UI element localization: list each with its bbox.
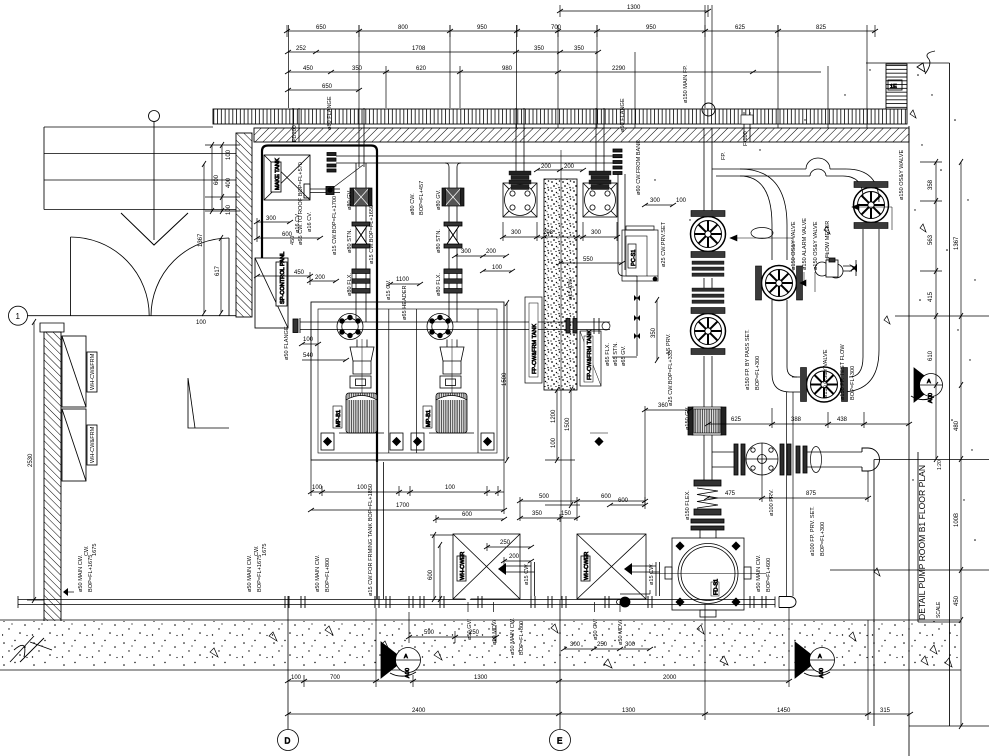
svg-text:ø15 CW.: ø15 CW. <box>568 278 574 300</box>
svg-text:100: 100 <box>551 437 557 448</box>
svg-text:WH-CWER: WH-CWER <box>460 552 466 580</box>
svg-text:FP-CW&FRM TANK: FP-CW&FRM TANK <box>532 324 538 374</box>
svg-text:ø50 GV/: ø50 GV/ <box>467 619 473 640</box>
header end flange left <box>327 153 336 156</box>
svg-text:300: 300 <box>266 216 277 222</box>
left elbow of run <box>772 352 797 392</box>
svg-text:300: 300 <box>461 249 472 255</box>
dim row1 1300 <box>560 10 708 12</box>
capped end <box>862 448 880 471</box>
PRV body <box>746 443 778 475</box>
svg-text:600: 600 <box>601 494 612 500</box>
junction dot with leader <box>328 188 332 192</box>
svg-text:563: 563 <box>928 234 934 245</box>
branch FP line <box>712 168 806 170</box>
svg-text:100: 100 <box>492 265 503 271</box>
svg-text:315: 315 <box>880 708 891 714</box>
valve5 <box>801 367 848 402</box>
PC-S1 panel <box>622 230 658 281</box>
svg-text:DETAIL PUMP ROOM B1 FLOOR: DETAIL PUMP ROOM B1 FLOOR PLAN <box>917 465 927 620</box>
pump unit 2 <box>411 314 608 451</box>
svg-text:650: 650 <box>322 84 333 90</box>
svg-text:980: 980 <box>502 66 513 72</box>
dim 1700 <box>311 509 504 511</box>
svg-text:388: 388 <box>791 417 802 423</box>
grid bubble small top <box>149 111 160 122</box>
right vertical x874 <box>873 460 875 727</box>
svg-text:1700: 1700 <box>396 503 410 509</box>
grid line 1 <box>28 315 237 317</box>
make tank tag <box>271 162 281 192</box>
grid stem <box>153 122 155 241</box>
svg-text:400: 400 <box>226 177 232 188</box>
stack2 riser tee <box>445 163 461 167</box>
svg-text:100: 100 <box>196 320 207 326</box>
wall bottom fittings <box>64 591 74 593</box>
pipe into valve3 <box>771 225 773 260</box>
dim row4 <box>288 71 821 73</box>
svg-text:ø80 STN.: ø80 STN. <box>436 229 442 253</box>
main A spool flanges <box>692 261 724 303</box>
svg-text:A00: A00 <box>405 668 411 678</box>
main A valve2 <box>691 308 726 355</box>
flow meter assembly <box>815 262 829 276</box>
svg-text:438: 438 <box>837 417 848 423</box>
svg-text:FD-S1: FD-S1 <box>714 579 720 595</box>
svg-text:ø80 CW.: ø80 CW. <box>410 193 416 215</box>
floor band stipple fill <box>2 621 958 667</box>
dim texts top <box>296 5 827 103</box>
svg-text:100: 100 <box>303 337 314 343</box>
svg-text:100: 100 <box>357 485 368 491</box>
band open triangles <box>210 110 952 668</box>
dims 300 100 right of pumps <box>645 204 673 206</box>
frame right bolt <box>595 438 603 446</box>
svg-text:FP.: FP. <box>721 152 727 160</box>
dims 475/875 <box>707 497 868 499</box>
X box 1 <box>453 534 520 599</box>
dim 600 col to tank <box>868 520 960 522</box>
alarm drop pipes <box>771 300 773 352</box>
column centerline E <box>560 150 562 600</box>
dims near fire pumps 300 208 300 <box>503 236 617 238</box>
main A gate valve GV150 <box>688 407 726 435</box>
PRV right flanges <box>780 444 784 475</box>
header right end fittings <box>566 319 570 334</box>
svg-text:A00: A00 <box>819 668 825 678</box>
pump unit 1 <box>321 314 403 451</box>
stack2 strainer <box>444 222 462 248</box>
svg-text:ø50 FLANGE: ø50 FLANGE <box>284 326 290 360</box>
top right open triangle <box>917 63 925 72</box>
svg-text:ø150 OS&Y VALVE: ø150 OS&Y VALVE <box>791 221 797 270</box>
svg-text:ø50 GV/: ø50 GV/ <box>593 619 599 640</box>
svg-text:ø15 GV.: ø15 GV. <box>386 279 392 300</box>
svg-text:WH-CW&FRM: WH-CW&FRM <box>90 426 96 463</box>
svg-text:252: 252 <box>296 46 307 52</box>
svg-text:ø150 OS&Y VALVE: ø150 OS&Y VALVE <box>813 221 819 270</box>
wall left upper hatch <box>236 133 252 317</box>
dim 600 vert box1 <box>433 535 435 599</box>
svg-text:625: 625 <box>731 417 742 423</box>
svg-text:350: 350 <box>651 327 657 338</box>
door dim 617 <box>220 238 222 313</box>
svg-text:650: 650 <box>316 25 327 31</box>
valve3 <box>756 266 803 301</box>
svg-text:1708: 1708 <box>412 46 426 52</box>
louver tag 2 <box>87 425 97 465</box>
fire pump unit 2 <box>583 171 617 217</box>
svg-text:540: 540 <box>303 353 314 359</box>
svg-text:ø80 FLX.: ø80 FLX. <box>347 273 353 296</box>
svg-text:450: 450 <box>954 595 960 606</box>
dim 360/600 left of main <box>645 409 690 411</box>
svg-text:1367: 1367 <box>198 233 204 247</box>
wall right ladder segment <box>886 64 907 109</box>
make tank outlet fitting <box>304 184 310 198</box>
wall top hatch band <box>254 128 909 142</box>
svg-text:200: 200 <box>486 249 497 255</box>
svg-text:800: 800 <box>398 25 409 31</box>
svg-text:358: 358 <box>928 179 934 190</box>
dim 200 200 above <box>537 169 583 171</box>
svg-text:D: D <box>285 737 291 746</box>
svg-text:350: 350 <box>574 46 585 52</box>
svg-text:200: 200 <box>509 554 520 560</box>
dim 1100 <box>390 283 420 285</box>
svg-text:100: 100 <box>312 485 323 491</box>
bypass drop to floor main <box>786 392 788 596</box>
grid bubble 1 <box>9 306 28 325</box>
svg-text:600: 600 <box>618 498 629 504</box>
pump bay dividers <box>388 309 390 453</box>
svg-text:CW.: CW. <box>254 545 260 556</box>
svg-text:ø15 CW.BOP=FL+1650: ø15 CW.BOP=FL+1650 <box>369 205 375 264</box>
svg-text:WH-CWER: WH-CWER <box>584 552 590 580</box>
svg-text:1367: 1367 <box>954 236 960 250</box>
svg-text:1450: 1450 <box>777 708 791 714</box>
column tag right <box>580 331 601 386</box>
riser FD100 left <box>292 108 294 142</box>
svg-text:BOP=FL+600: BOP=FL+600 <box>766 558 772 592</box>
svg-text:617: 617 <box>215 265 221 276</box>
pump1 cone <box>350 347 374 374</box>
svg-text:600: 600 <box>214 174 220 185</box>
svg-text:600: 600 <box>462 512 473 518</box>
svg-text:ø50 MAIN CW.: ø50 MAIN CW. <box>78 554 84 592</box>
svg-text:1E: 1E <box>890 84 897 90</box>
svg-text:1300: 1300 <box>474 675 488 681</box>
door arc left <box>71 237 150 316</box>
svg-text:BOP=FL+800: BOP=FL+800 <box>519 621 525 655</box>
svg-text:1500: 1500 <box>502 372 508 386</box>
roof left edge <box>43 127 45 210</box>
svg-text:150: 150 <box>561 511 572 517</box>
wall left lower hatch <box>44 332 61 623</box>
svg-text:415: 415 <box>928 291 934 302</box>
svg-text:BOP=FL+457: BOP=FL+457 <box>419 181 425 215</box>
svg-text:ø50 MAIN CW.: ø50 MAIN CW. <box>315 554 321 592</box>
svg-text:1500: 1500 <box>565 417 571 431</box>
svg-text:350: 350 <box>532 511 543 517</box>
right outer boundary line <box>949 63 951 726</box>
svg-text:MP-B1: MP-B1 <box>336 410 342 427</box>
svg-text:A: A <box>927 379 931 385</box>
door arc right <box>151 238 229 316</box>
louver tag 1 <box>87 352 97 392</box>
svg-text:BOP=FL+300: BOP=FL+300 <box>755 356 761 390</box>
stack1 pipes <box>355 163 357 322</box>
svg-text:950: 950 <box>646 25 657 31</box>
dim 550 <box>560 262 622 264</box>
pump1 inlet flange <box>337 314 363 340</box>
door dim 1367 <box>203 164 205 313</box>
top right break mark <box>925 51 935 74</box>
svg-text:550: 550 <box>583 257 594 263</box>
dim row2 <box>287 30 875 32</box>
PRV outlet pipe <box>807 451 862 453</box>
svg-text:PC-S1: PC-S1 <box>631 250 637 266</box>
svg-text:610: 610 <box>928 350 934 361</box>
stack2 gate valve <box>442 188 464 206</box>
dim 540/100 pump1 <box>302 343 318 345</box>
svg-text:300: 300 <box>625 642 636 648</box>
svg-text:ø15 CW.: ø15 CW. <box>524 563 530 585</box>
ramp symbol <box>188 378 229 428</box>
main A lower flanges <box>691 519 724 523</box>
run valve5 to left <box>792 376 800 378</box>
wall top ladder band <box>213 109 907 124</box>
svg-text:1: 1 <box>16 312 21 321</box>
stack1 strainer <box>352 222 370 248</box>
heavy pipe loop right leg <box>376 151 378 462</box>
svg-text:2400: 2400 <box>412 708 426 714</box>
riser phi15 cw 2 <box>655 562 657 596</box>
dims 500/600 over boxes <box>520 500 645 502</box>
svg-text:ø15 CW.FOR FRMING TANK BOP=FL+: ø15 CW.FOR FRMING TANK BOP=FL+1850 <box>368 484 374 596</box>
svg-text:2530: 2530 <box>28 453 34 467</box>
svg-text:ø25 CW.BOP=FL+335: ø25 CW.BOP=FL+335 <box>668 350 674 406</box>
svg-text:200: 200 <box>564 164 575 170</box>
pipe end cap right <box>774 597 776 608</box>
svg-text:MP-B1: MP-B1 <box>426 410 432 427</box>
dim 300/200/100 above pump frame <box>455 255 506 257</box>
dim 2530 wall left <box>33 322 35 600</box>
svg-text:A: A <box>404 654 408 660</box>
wall left lower cap <box>40 323 64 332</box>
section flag 2 <box>795 642 835 678</box>
dim row A <box>288 680 789 682</box>
svg-text:450: 450 <box>303 66 314 72</box>
svg-text:500: 500 <box>539 494 550 500</box>
svg-text:A00: A00 <box>928 393 934 403</box>
section flag 1 <box>381 642 421 678</box>
stack1 flex <box>352 269 370 293</box>
svg-text:450: 450 <box>290 236 296 245</box>
door leaf left <box>70 237 72 316</box>
svg-text:300: 300 <box>591 230 602 236</box>
pump1 motor <box>346 393 377 433</box>
svg-text:480: 480 <box>954 420 960 431</box>
svg-text:2000: 2000 <box>663 675 677 681</box>
louver box 1 <box>62 336 86 407</box>
svg-text:700: 700 <box>551 25 562 31</box>
louver box 2 <box>62 409 86 481</box>
pump2 coupling <box>440 376 461 388</box>
svg-text:ø50 MDV/: ø50 MDV/ <box>618 619 624 645</box>
dim 590 riser line <box>408 612 410 643</box>
roof line 1 <box>44 126 213 128</box>
floor band break mark left <box>10 636 52 662</box>
bottom main CW pipe <box>18 599 775 601</box>
margin speckle dots <box>654 69 976 541</box>
svg-text:ø150 FLEX.: ø150 FLEX. <box>685 490 691 520</box>
pipe below valve4 <box>862 229 864 357</box>
column tag left <box>525 297 542 383</box>
svg-text:1675: 1675 <box>92 544 98 556</box>
sump pump blob <box>620 597 630 607</box>
dim 300 / 600 make tank <box>257 221 290 223</box>
svg-text:1:20: 1:20 <box>937 460 943 470</box>
big chevron arrow <box>121 213 188 245</box>
svg-text:ø150 FP. TEST FLOW: ø150 FP. TEST FLOW <box>840 344 846 400</box>
svg-text:ø65 STN.: ø65 STN. <box>613 342 619 366</box>
svg-text:ø50 FLANGE: ø50 FLANGE <box>620 98 626 132</box>
svg-text:ø100 FP. PRV. SET.: ø100 FP. PRV. SET. <box>810 506 816 556</box>
svg-text:BOP=FL+1675: BOP=FL+1675 <box>257 555 263 592</box>
pump frame inner <box>318 309 497 453</box>
svg-text:BOP=FL+800: BOP=FL+800 <box>325 558 331 592</box>
riser phi15 cw 1 <box>530 562 532 596</box>
svg-text:ø65 GV.: ø65 GV. <box>621 345 627 366</box>
svg-text:ø150 OS&Y WALVE: ø150 OS&Y WALVE <box>899 149 905 200</box>
svg-text:ø15 CW.: ø15 CW. <box>649 563 655 585</box>
dim 600 WH-CWER left <box>439 545 441 599</box>
X box 2 <box>577 534 646 599</box>
floor edge band left top line <box>0 619 960 621</box>
flange ticks on bottom pipe <box>285 596 766 608</box>
svg-text:ø150 ALARM VALVE: ø150 ALARM VALVE <box>802 218 808 270</box>
right wall label box <box>888 80 902 90</box>
section flag 3 <box>911 368 943 403</box>
svg-text:590: 590 <box>424 630 435 636</box>
tank tag boxes near column <box>525 226 658 386</box>
svg-text:ø65 FLX.: ø65 FLX. <box>605 343 611 366</box>
svg-text:A: A <box>818 654 822 660</box>
top right eave line <box>866 62 950 64</box>
svg-text:ø25 CW.PRV.SET: ø25 CW.PRV.SET <box>661 221 667 267</box>
dim row3 <box>288 51 598 53</box>
crossing hop <box>806 158 830 176</box>
svg-text:FD100: FD100 <box>292 125 298 142</box>
svg-text:ø100 PRV.: ø100 PRV. <box>769 489 775 516</box>
svg-text:825: 825 <box>816 25 827 31</box>
svg-text:WH-CW&FRM: WH-CW&FRM <box>90 353 96 390</box>
svg-text:ø150 OS&Y VALVE: ø150 OS&Y VALVE <box>823 349 829 398</box>
dim 1500 frame <box>506 303 508 460</box>
title text <box>917 460 943 620</box>
riser circle on wall <box>702 103 715 116</box>
stack2 flex <box>444 269 462 293</box>
svg-text:200: 200 <box>541 164 552 170</box>
svg-text:ø65 HEADER: ø65 HEADER <box>402 285 408 320</box>
svg-text:1100: 1100 <box>396 277 410 283</box>
main A valve1 <box>691 211 726 258</box>
svg-text:ø150 GV.: ø150 GV. <box>685 406 691 430</box>
svg-text:625: 625 <box>735 25 746 31</box>
dim col x936 <box>935 162 937 459</box>
svg-text:ø60 CW.FROM BANK: ø60 CW.FROM BANK <box>636 140 642 195</box>
svg-text:100: 100 <box>445 485 456 491</box>
dim col x961 <box>960 162 962 726</box>
sump pit square <box>672 538 744 610</box>
fire pump stubs <box>515 108 517 171</box>
svg-text:ø80 GV.: ø80 GV. <box>347 189 353 210</box>
svg-text:950: 950 <box>477 25 488 31</box>
svg-text:MAKE TANK: MAKE TANK <box>275 158 281 190</box>
svg-text:1300: 1300 <box>627 5 641 11</box>
PRV left flanges <box>734 444 738 475</box>
svg-text:ø15 CW.BOP=FL+1700: ø15 CW.BOP=FL+1700 <box>332 196 338 255</box>
pump frame outer <box>311 302 504 460</box>
pump2 cone <box>440 347 464 374</box>
dim 600 <box>436 518 504 520</box>
svg-text:100B: 100B <box>954 513 960 527</box>
grid bubble D <box>278 596 299 751</box>
svg-text:ø80 GV.: ø80 GV. <box>436 189 442 210</box>
top-left wall dims <box>211 145 213 211</box>
suction header φ65 <box>336 155 617 157</box>
heavy pipe lower leg to tank <box>376 462 378 599</box>
svg-text:300: 300 <box>650 198 661 204</box>
main A pipe mid <box>703 356 705 407</box>
pump1 column <box>356 340 358 348</box>
svg-text:250: 250 <box>597 642 608 648</box>
pump2 base <box>429 432 474 434</box>
valve4 <box>854 182 889 229</box>
pump2 column <box>446 340 448 348</box>
svg-text:ø50 MAIN CW.: ø50 MAIN CW. <box>247 554 253 592</box>
svg-text:SCALE: SCALE <box>936 601 942 618</box>
pump2 label tag <box>423 406 432 428</box>
pump1 label tag <box>333 406 342 428</box>
dim 350 vert <box>656 300 658 360</box>
svg-text:BOP=FL+1675: BOP=FL+1675 <box>88 555 94 592</box>
svg-text:FP-CW&FRM TANK: FP-CW&FRM TANK <box>587 330 593 380</box>
floor band extra line right <box>620 651 760 653</box>
roof line 3 <box>44 179 236 181</box>
PRV tee from main A <box>712 451 734 453</box>
make-up tank box <box>264 155 310 200</box>
stack1 gate valve <box>350 188 372 206</box>
svg-text:600: 600 <box>428 569 434 580</box>
eccentric reducer ellipse <box>751 228 773 239</box>
pump suction header <box>300 321 610 323</box>
right horizontals <box>895 315 989 317</box>
stack2 pipes <box>448 167 450 322</box>
header end flange right <box>613 149 622 152</box>
heavy pipe loop left leg <box>261 151 263 258</box>
door leaf right <box>228 238 230 316</box>
roof line 4 <box>44 209 236 211</box>
dims under pipe left <box>409 636 496 638</box>
SP control panel box <box>255 258 288 328</box>
svg-text:ø50 MAIN CW.: ø50 MAIN CW. <box>756 554 762 592</box>
svg-text:350: 350 <box>352 66 363 72</box>
svg-text:ø50 MAIN CW.: ø50 MAIN CW. <box>510 617 516 655</box>
svg-text:450: 450 <box>294 270 305 276</box>
svg-text:2290: 2290 <box>612 66 626 72</box>
